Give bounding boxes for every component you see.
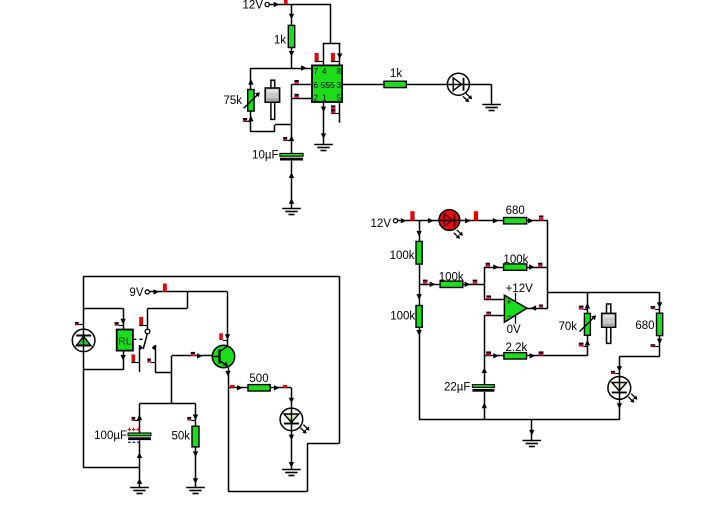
wire -input row: [484, 315, 504, 317]
wire to 50k: [195, 404, 197, 427]
terminal 12V (top circuit): [265, 2, 269, 6]
svg-text:6: 6: [314, 81, 319, 90]
wire 680 jog to LED column: [619, 356, 659, 358]
voltage bar above LED D5: [611, 371, 615, 373]
svg-text:100k: 100k: [503, 254, 528, 266]
capacitor 10uF: [280, 153, 303, 156]
wire bottom rail (0V): [419, 419, 619, 421]
ground (555 pin1): [314, 144, 333, 146]
wire pin8 to supply bracket: [339, 44, 341, 66]
transistor Q1 (NPN, on): [212, 345, 234, 367]
wire supply drop to 555 bracket: [330, 4, 332, 44]
svg-text:75k: 75k: [223, 95, 242, 107]
relay actuation dashed link: [133, 338, 145, 340]
svg-text:9V: 9V: [129, 287, 143, 299]
op-amp U2: [504, 295, 527, 322]
svg-text:680: 680: [635, 320, 654, 332]
voltage bar pin4: [315, 53, 319, 61]
resistor 1k (output): [384, 81, 406, 87]
wire 500 to LED D3: [270, 387, 291, 389]
resistor 100k (upper divider): [416, 241, 422, 264]
resistor 680 (top): [504, 218, 527, 224]
wire to 100uF: [139, 404, 141, 433]
svg-text:4: 4: [322, 67, 327, 76]
voltage bar pin5 (oscillating): [331, 105, 335, 107]
svg-text:50k: 50k: [171, 431, 190, 443]
svg-text:2.2k: 2.2k: [506, 342, 528, 354]
svg-text:7: 7: [314, 67, 319, 76]
voltage bar above 680 right: [651, 306, 656, 308]
wire supply bracket horizontal: [323, 43, 341, 45]
switch contact left: [140, 345, 144, 351]
wire 10uF to ground: [291, 161, 293, 209]
voltage bar at right contact: [147, 359, 151, 361]
voltage bar at diode cathode: [75, 322, 79, 324]
wire RL bottom to left rail: [83, 369, 123, 371]
terminal 12V (right): [393, 219, 397, 223]
wire left rail joins 100uF ground lead: [83, 467, 139, 469]
LED D3 (bottom-left, off): [280, 408, 303, 431]
wire right contact to base node: [155, 345, 157, 372]
voltage bar pin8: [331, 53, 335, 61]
voltage bar after input 100k: [473, 280, 478, 282]
ground (top circuit LED): [482, 104, 501, 106]
voltage bar before 2.2k: [486, 351, 491, 353]
slider control for 75k: [271, 80, 275, 119]
voltage bar above 70k: [579, 306, 584, 308]
resistor 70k variable: [584, 313, 590, 335]
resistor 1k (vertical, 555 charge): [288, 25, 294, 47]
wire between divider resistors: [419, 264, 421, 305]
svg-text:555: 555: [320, 80, 335, 90]
svg-text:8: 8: [337, 67, 342, 76]
svg-text:680: 680: [506, 205, 525, 217]
wire pin4 to supply bracket: [323, 44, 325, 66]
wire 100uF bottom to ground: [139, 440, 141, 487]
wire pin5 stub: [339, 102, 341, 123]
wire down to LED D3: [291, 388, 293, 409]
svg-text:0V: 0V: [507, 324, 521, 336]
voltage bar above 100uF: [132, 417, 136, 419]
svg-text:100k: 100k: [390, 311, 415, 323]
svg-text:100µF: 100µF: [94, 430, 127, 442]
wire outer loop step: [307, 443, 339, 445]
voltage bar below 70k: [579, 343, 584, 345]
wire 2.2k row left: [484, 355, 504, 357]
svg-text:12V: 12V: [243, 0, 264, 12]
voltage bar after 500: [283, 385, 287, 388]
wire LED D1 through: [448, 84, 470, 86]
wire +input node column: [484, 267, 486, 299]
wire 1k branch vertical: [291, 5, 293, 26]
resistor 2.2k: [504, 353, 527, 359]
ground (100uF): [130, 487, 149, 489]
switch SW1 (relay contact) pivot: [145, 329, 150, 334]
wire outer loop left vertical: [83, 276, 85, 468]
voltage bar at +input: [486, 295, 491, 297]
resistor 100k (lower divider): [416, 306, 422, 328]
wire top rail right section: [548, 292, 660, 294]
wire lower 100k to bottom rail: [419, 327, 421, 420]
wire pin1 to ground: [323, 102, 325, 144]
voltage bar after D4: [474, 211, 478, 221]
voltage bar pin2: [294, 94, 298, 96]
wire 2.2k row right to 70k branch: [527, 355, 588, 357]
wire D4 to 680 resistor: [460, 220, 504, 222]
wire 680 branch top lead: [659, 292, 661, 313]
voltage bar at 12V right: [410, 211, 414, 221]
wire RL coil bottom: [123, 351, 125, 370]
wire feedback row left: [484, 267, 503, 269]
LED D1 (top, off): [447, 73, 469, 95]
voltage bar before 500: [230, 385, 235, 388]
voltage bar above 10uF: [283, 137, 287, 139]
svg-text:500: 500: [249, 373, 268, 385]
wire feedback row right: [527, 267, 548, 269]
ground (right circuit): [523, 440, 542, 442]
voltage bar after 2.2k: [539, 351, 544, 353]
voltage bar at RL top: [115, 322, 119, 324]
svg-text:5: 5: [337, 93, 342, 102]
voltage bar after feedback 100k: [538, 263, 542, 265]
svg-text:100k: 100k: [390, 250, 415, 262]
voltage bar at 9V rail: [163, 284, 167, 292]
wire pin6 row: [292, 84, 313, 86]
svg-text:22µF: 22µF: [444, 382, 470, 394]
terminal 9V: [145, 290, 149, 294]
op 555 IC body U1: [312, 65, 342, 102]
svg-text:10µF: 10µF: [252, 150, 278, 162]
voltage bar at output: [539, 305, 543, 307]
wire outer loop top (bottom-left circuit): [83, 276, 339, 278]
wire collector drop from 9V rail: [227, 292, 229, 346]
voltage bar at -input: [486, 312, 491, 314]
wire input divider column: [419, 221, 421, 242]
wire pin6 to pin2 column: [291, 84, 293, 98]
wire 12V rail right circuit: [398, 220, 440, 222]
wire through diode D2: [83, 329, 85, 351]
svg-text:12V: 12V: [371, 218, 392, 230]
wire D1 to ground: [469, 84, 491, 86]
voltage bar after 680 top: [539, 216, 543, 218]
voltage bar at switch common: [139, 317, 143, 325]
voltage bar pin6: [294, 80, 298, 82]
wire 22uF to bottom rail: [484, 392, 486, 420]
relay coil RL: [117, 330, 133, 351]
wire threshold column down to 10uF: [291, 98, 293, 153]
capacitor 22uF: [472, 385, 494, 388]
svg-text:1k: 1k: [274, 35, 286, 47]
wire base row to transistor Q1: [172, 355, 213, 357]
svg-text:70k: 70k: [558, 321, 577, 333]
wire emitter column: [228, 368, 230, 492]
wire through LED D3 to ground: [291, 408, 293, 469]
wire 1k to LED D1: [406, 84, 447, 86]
wire 9V rail: [149, 291, 227, 293]
wire op-amp output: [527, 308, 548, 310]
voltage bar below 75k: [243, 118, 247, 120]
voltage bar above 50k: [187, 417, 191, 419]
voltage bar at collector: [219, 333, 223, 340]
svg-text:−: −: [506, 311, 511, 321]
wire 9V branch to switch: [187, 292, 189, 308]
ground (LED D3): [282, 469, 301, 471]
LED D5 (right, off): [608, 377, 631, 400]
svg-text:100k: 100k: [439, 272, 464, 284]
svg-text:RL: RL: [118, 337, 132, 348]
wire +input row: [484, 299, 504, 301]
svg-text:2: 2: [314, 93, 319, 102]
wire outer loop bottom: [228, 491, 307, 493]
voltage bar at base: [191, 352, 195, 354]
svg-text:+: +: [506, 297, 511, 307]
wire top supply rail: [269, 4, 331, 6]
voltage bar before feedback 100k: [486, 263, 490, 265]
wire below 1k to pin7 node: [291, 48, 293, 69]
resistor 100k (input series): [440, 281, 463, 287]
wire emitter to 500 resistor: [228, 387, 248, 389]
switch contact right: [152, 345, 156, 351]
wire pin7 row to 555: [292, 68, 313, 70]
wire input 100k to +node: [463, 284, 485, 286]
wire LED D5 column: [619, 356, 621, 376]
resistor 100k (feedback): [504, 264, 527, 270]
wire ground drop: [531, 420, 533, 440]
wire 70k bottom lead: [587, 335, 589, 356]
LED D4 (red, lit): [439, 210, 460, 231]
ground (50k): [186, 487, 205, 489]
wire through LED D4: [439, 220, 459, 222]
svg-text:3: 3: [337, 81, 342, 90]
resistor 75k variable: [248, 90, 254, 112]
wire divider tap row (100k to +input): [419, 284, 440, 286]
wire -input column down to 2.2k node: [484, 315, 486, 384]
wire 680 to output column: [527, 220, 548, 222]
wire outer loop right vertical: [339, 276, 341, 443]
svg-text:1: 1: [322, 93, 327, 102]
wire divider row: [140, 403, 196, 405]
slider control for 70k: [607, 304, 611, 343]
switch lever: [143, 334, 147, 349]
ground (10uF): [282, 208, 301, 210]
resistor 500: [248, 385, 270, 391]
svg-text:1k: 1k: [390, 68, 402, 80]
wire 680 bottom lead: [659, 336, 661, 357]
wire output column vertical: [547, 221, 549, 308]
wire 70k top lead: [587, 292, 589, 313]
resistor 680 (right): [657, 313, 663, 335]
wire LED D5 to bottom rail: [619, 377, 621, 420]
wire 75k top lead: [250, 68, 252, 90]
svg-text:+12V: +12V: [506, 283, 534, 295]
wire 75k to threshold node (step): [251, 131, 275, 133]
diode D2 (left, conducting): [72, 329, 95, 352]
wire RL coil top branch: [83, 308, 123, 310]
voltage bar below 680 right: [651, 344, 656, 346]
wire pin2 row: [292, 98, 313, 100]
wire 75k bottom lead: [250, 111, 252, 132]
wire left to 75k branch: [251, 68, 292, 70]
wire 50k to ground: [195, 447, 197, 487]
voltage bar at left contact: [132, 354, 136, 362]
wire base node column: [171, 356, 173, 404]
voltage bar at 12V rail: [284, 0, 288, 4]
resistor 50k: [192, 426, 199, 447]
wire pin3 output row: [342, 84, 384, 86]
voltage bar at divider tap: [423, 280, 428, 282]
